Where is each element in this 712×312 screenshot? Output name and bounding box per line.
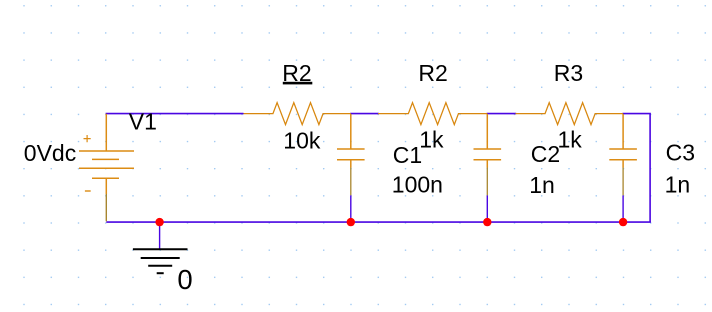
wire stub node C capacitor C3 to bottom rail [622,195,624,222]
wire top rail segment R2 right to node B [487,113,517,115]
svg-text:C3: C3 [666,139,695,165]
ground symbol 0 [133,249,188,273]
value label 10k [283,127,321,153]
svg-text:0Vdc: 0Vdc [24,140,76,166]
wire stub node B capacitor C2 to bottom rail [486,195,488,222]
wire stub node A capacitor C1 to bottom rail [350,195,352,222]
wire top rail segment R3 right to right edge with corner down [622,114,650,223]
junction dot ground node [155,218,163,226]
voltage source V1 battery symbol [79,114,134,222]
label R2 (second resistor) [418,60,447,86]
svg-text:C2: C2 [531,141,560,167]
value label 1k (third resistor) [558,126,583,152]
wire bottom rail [106,221,651,223]
svg-text:1n: 1n [529,172,555,198]
svg-text:V1: V1 [129,108,157,134]
svg-text:0: 0 [177,264,192,295]
junction dot node A [347,218,355,226]
svg-text:1n: 1n [665,171,691,197]
svg-text:1k: 1k [419,127,444,153]
resistor R1 (labelled R2, 10k) [244,103,351,125]
svg-text:1k: 1k [558,126,583,152]
capacitor C1 (100n) [337,114,365,195]
label V1 [129,108,157,134]
resistor R2 (1k) [378,103,487,125]
wire stub ground [159,222,161,249]
svg-text:10k: 10k [283,127,321,153]
svg-text:R3: R3 [554,60,583,86]
resistor R3 (1k) [516,103,624,125]
wire top rail segment V1 to R1 [106,113,244,115]
svg-text:100n: 100n [392,172,443,198]
junction dot node B [483,218,491,226]
label C3 [666,139,695,165]
svg-text:R2: R2 [418,60,447,86]
value label 1n (C2) [529,172,555,198]
value label 100n [392,172,443,198]
value label 0Vdc [24,140,76,166]
label R2 (underlined, first resistor) [282,60,312,86]
wire top rail segment R1 right to node A [350,113,379,115]
label C1 [393,142,422,168]
value label 1n (C3) [665,171,691,197]
capacitor C3 (1n) [609,114,637,195]
label R3 [554,60,583,86]
junction dot node C [619,218,627,226]
value label 1k (second resistor) [419,127,444,153]
svg-text:C1: C1 [393,142,422,168]
label C2 [531,141,560,167]
capacitor C2 (1n) [474,114,502,195]
net label 0 (ground) [177,264,192,295]
